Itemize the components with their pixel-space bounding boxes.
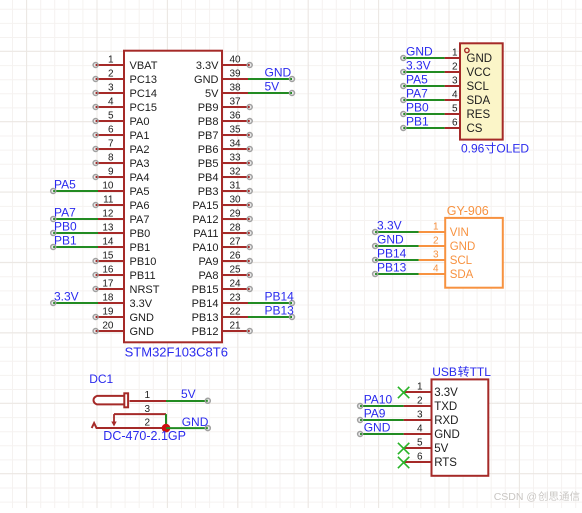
svg-text:19: 19	[102, 307, 114, 318]
U1 pin 33 (PB5) right side	[198, 153, 252, 171]
svg-text:21: 21	[230, 321, 242, 332]
svg-text:SCL: SCL	[467, 81, 490, 93]
wire net PA7 to U1 pin 12	[51, 217, 98, 222]
svg-text:1: 1	[433, 222, 439, 233]
svg-text:NRST: NRST	[130, 284, 160, 296]
U1 pin 5 (PA0) left side	[93, 111, 149, 129]
svg-text:PB9: PB9	[198, 102, 219, 114]
connector J2 GY-906 body	[445, 218, 503, 288]
svg-text:GND: GND	[194, 74, 219, 86]
svg-text:32: 32	[230, 167, 242, 178]
svg-text:27: 27	[230, 237, 242, 248]
wire net PB1 to U1 pin 14	[51, 245, 98, 250]
svg-text:PB14: PB14	[265, 290, 295, 304]
no-connect flag on J3 pin 1	[398, 387, 409, 398]
svg-text:PA1: PA1	[130, 130, 150, 142]
svg-text:PB13: PB13	[377, 261, 407, 275]
svg-text:PA7: PA7	[54, 206, 76, 220]
U1 pin 37 (PB9) right side	[198, 97, 252, 115]
U1 pin 38 (5V) right side	[205, 83, 248, 101]
svg-text:2: 2	[433, 236, 439, 247]
svg-text:SDA: SDA	[450, 269, 474, 281]
svg-text:16: 16	[102, 265, 114, 276]
U1 pin 28 (PA11) right side	[193, 223, 252, 241]
svg-text:PB10: PB10	[130, 256, 157, 268]
U1 pin 22 (PB13) right side	[192, 307, 248, 325]
svg-text:SDA: SDA	[467, 95, 491, 107]
U1 pin 3 (PC14) left side	[93, 83, 157, 101]
svg-text:5: 5	[417, 438, 423, 449]
wire net 5V to U1 pin 38	[248, 91, 295, 96]
svg-text:VBAT: VBAT	[130, 60, 158, 72]
svg-text:28: 28	[230, 223, 242, 234]
svg-text:6: 6	[452, 118, 458, 129]
wire net GND to U1 pin 39	[248, 77, 295, 82]
svg-text:SCL: SCL	[450, 255, 473, 267]
U1 pin 24 (PB15) right side	[192, 279, 253, 297]
svg-text:7: 7	[108, 139, 114, 150]
svg-text:PB4: PB4	[198, 172, 219, 184]
wire net GND to J1 pin 1	[401, 56, 445, 61]
svg-text:PA9: PA9	[364, 407, 386, 421]
J3 pin 1 (3.3V)	[404, 382, 459, 400]
U1 pin 16 (PB11) left side	[93, 265, 155, 283]
U1 pin 40 (3.3V) right side	[196, 55, 252, 73]
junction dot	[162, 424, 171, 433]
svg-text:3.3V: 3.3V	[196, 60, 219, 72]
wire net PB0 to J1 pin 5	[401, 112, 445, 117]
svg-text:PC14: PC14	[130, 88, 158, 100]
svg-text:12: 12	[102, 209, 114, 220]
svg-text:PA10: PA10	[364, 393, 393, 407]
svg-text:PA4: PA4	[130, 172, 150, 184]
wire net 3.3V to J1 pin 2	[401, 70, 445, 75]
svg-text:PA12: PA12	[192, 214, 218, 226]
svg-text:PB13: PB13	[265, 304, 295, 318]
wire pin 3 to pin 2 junction	[165, 414, 167, 428]
svg-text:3.3V: 3.3V	[406, 59, 431, 73]
svg-text:29: 29	[230, 209, 242, 220]
svg-text:PB0: PB0	[130, 228, 151, 240]
svg-text:PB1: PB1	[130, 242, 151, 254]
no-connect flag on J3 pin 6	[398, 457, 409, 468]
svg-text:13: 13	[102, 223, 114, 234]
svg-text:15: 15	[102, 251, 114, 262]
U1 pin 2 (PC13) left side	[93, 69, 157, 87]
connector J3 USB转TTL body	[432, 379, 489, 475]
U1 pin 25 (PA8) right side	[199, 265, 253, 283]
wire net PA7 to J1 pin 4	[401, 98, 445, 103]
U1 pin 12 (PA7) left side	[97, 209, 149, 227]
svg-text:4: 4	[108, 97, 114, 108]
U1 pin 9 (PA4) left side	[93, 167, 149, 185]
U1 pin 30 (PA15) right side	[192, 195, 252, 213]
svg-text:CS: CS	[467, 123, 483, 135]
J1 pin 4 (SDA)	[445, 90, 491, 108]
svg-text:38: 38	[230, 83, 242, 94]
svg-text:DC-470-2.1GP: DC-470-2.1GP	[103, 429, 186, 443]
svg-text:PB0: PB0	[406, 101, 429, 115]
svg-text:34: 34	[230, 139, 242, 150]
svg-text:GND: GND	[265, 66, 292, 80]
svg-text:PA15: PA15	[192, 200, 218, 212]
svg-text:VCC: VCC	[467, 67, 491, 79]
svg-text:RXD: RXD	[434, 415, 458, 427]
svg-text:GND: GND	[434, 429, 460, 441]
svg-text:14: 14	[102, 237, 114, 248]
svg-text:31: 31	[230, 181, 242, 192]
wire net PB13 to J2 pin 4	[373, 272, 419, 277]
J2 pin 4 (SDA)	[419, 264, 474, 282]
svg-text:8: 8	[108, 153, 114, 164]
svg-text:5V: 5V	[181, 387, 196, 401]
svg-text:PA9: PA9	[199, 256, 219, 268]
svg-text:18: 18	[102, 293, 114, 304]
svg-text:11: 11	[103, 195, 114, 206]
svg-text:PB11: PB11	[130, 270, 156, 282]
svg-text:PB1: PB1	[54, 234, 77, 248]
U1 pin 15 (PB10) left side	[93, 251, 156, 269]
svg-text:6: 6	[417, 452, 423, 463]
U1 pin 20 (GND) left side	[93, 321, 154, 339]
U1 pin 18 (3.3V) left side	[97, 293, 153, 311]
svg-text:PC13: PC13	[130, 74, 158, 86]
wire net PB0 to U1 pin 13	[51, 231, 98, 236]
svg-text:3: 3	[144, 404, 150, 415]
svg-text:PA5: PA5	[406, 73, 428, 87]
U1 pin 21 (PB12) right side	[192, 321, 253, 339]
DC1 pin 3 (switch)	[114, 404, 166, 415]
svg-text:PB1: PB1	[406, 115, 429, 129]
svg-text:TTL: TTL	[470, 365, 492, 379]
svg-text:40: 40	[230, 55, 242, 66]
wire net 3.3V to U1 pin 18	[51, 301, 98, 306]
U1 pin 19 (GND) left side	[93, 307, 154, 325]
U1 pin 23 (PB14) right side	[192, 293, 248, 311]
svg-text:PB13: PB13	[192, 312, 219, 324]
svg-text:4: 4	[452, 90, 458, 101]
J3 pin 2 (TXD)	[404, 396, 458, 414]
svg-text:36: 36	[230, 111, 242, 122]
J2 pin 3 (SCL)	[419, 250, 473, 268]
no-connect flag on J3 pin 5	[398, 443, 409, 454]
svg-text:30: 30	[230, 195, 242, 206]
svg-text:GND: GND	[130, 326, 155, 338]
svg-text:6: 6	[108, 125, 114, 136]
svg-text:20: 20	[102, 321, 114, 332]
DC1 pin 1 (tip)	[130, 390, 167, 401]
U1 pin 32 (PB4) right side	[198, 167, 252, 185]
J1 pin 3 (SCL)	[445, 76, 490, 94]
wire net 5V from DC1 pin 1	[166, 398, 210, 403]
J2 pin 1 (VIN)	[419, 222, 469, 240]
svg-text:39: 39	[230, 69, 242, 80]
U1 pin 1 (VBAT) left side	[93, 55, 158, 73]
svg-text:2: 2	[144, 418, 150, 429]
svg-text:0.96: 0.96	[461, 142, 485, 156]
svg-text:4: 4	[417, 424, 423, 435]
U1 pin 31 (PB3) right side	[198, 181, 252, 199]
svg-text:GND: GND	[467, 53, 493, 65]
svg-text:3.3V: 3.3V	[377, 219, 402, 233]
svg-text:PA7: PA7	[130, 214, 150, 226]
svg-text:3.3V: 3.3V	[54, 290, 79, 304]
svg-text:9: 9	[108, 167, 114, 178]
U1 pin 36 (PB8) right side	[198, 111, 252, 129]
svg-text:RES: RES	[467, 109, 491, 121]
U1 pin 11 (PA6) left side	[93, 195, 149, 213]
svg-text:4: 4	[433, 264, 439, 275]
svg-text:3: 3	[452, 76, 458, 87]
U1 pin 39 (GND) right side	[194, 69, 248, 87]
U1 pin 10 (PA5) left side	[97, 181, 149, 199]
svg-text:3: 3	[108, 83, 114, 94]
J3 pin 3 (RXD)	[404, 410, 459, 428]
IC U1 STM32F103C8T6 body	[124, 51, 222, 343]
svg-text:5V: 5V	[265, 80, 280, 94]
U1 pin 8 (PA3) left side	[93, 153, 149, 171]
svg-text:2: 2	[108, 69, 114, 80]
svg-text:1: 1	[144, 390, 150, 401]
wire net PA9 to J3 pin 3	[358, 418, 404, 423]
svg-text:26: 26	[230, 251, 242, 262]
svg-text:PB14: PB14	[377, 247, 407, 261]
svg-text:PB8: PB8	[198, 116, 219, 128]
svg-text:CSDN @: CSDN @	[494, 491, 537, 503]
svg-text:PA8: PA8	[199, 270, 219, 282]
svg-text:PA11: PA11	[193, 228, 218, 240]
svg-text:VIN: VIN	[450, 227, 469, 239]
wire net PB13 to U1 pin 22	[248, 315, 295, 320]
U1 pin 34 (PB6) right side	[198, 139, 252, 157]
svg-text:10: 10	[102, 181, 114, 192]
J3 pin 6 (RTS)	[404, 452, 458, 470]
svg-text:33: 33	[230, 153, 242, 164]
svg-text:USB: USB	[432, 365, 457, 379]
svg-text:37: 37	[230, 97, 242, 108]
DC1 tip contact bar	[124, 393, 128, 407]
svg-text:PB5: PB5	[198, 158, 219, 170]
svg-text:PA10: PA10	[192, 242, 218, 254]
connector J1 0.96寸OLED body	[460, 43, 503, 139]
J3 pin 4 (GND)	[404, 424, 460, 442]
wire net GND to J2 pin 2	[373, 244, 419, 249]
svg-text:GND: GND	[450, 241, 476, 253]
svg-text:PB3: PB3	[198, 186, 219, 198]
J1 pin 1 (GND)	[445, 48, 492, 66]
J1 name label 0.96寸OLED	[461, 142, 529, 156]
J2 pin 2 (GND)	[419, 236, 476, 254]
U1 pin 35 (PB7) right side	[198, 125, 252, 143]
svg-text:23: 23	[230, 293, 242, 304]
J1 pin-1 polarity mark	[465, 48, 469, 52]
svg-text:PA5: PA5	[130, 186, 150, 198]
svg-text:PA6: PA6	[130, 200, 150, 212]
svg-text:3: 3	[433, 250, 439, 261]
J1 pin 5 (RES)	[445, 104, 491, 122]
svg-text:GND: GND	[182, 415, 209, 429]
wire net PB14 to U1 pin 23	[248, 301, 295, 306]
svg-text:PB14: PB14	[192, 298, 219, 310]
svg-text:25: 25	[230, 265, 242, 276]
svg-text:1: 1	[108, 55, 114, 66]
svg-text:GND: GND	[130, 312, 155, 324]
svg-text:PA7: PA7	[406, 87, 428, 101]
svg-text:1: 1	[452, 48, 458, 59]
svg-text:GY-906: GY-906	[447, 204, 489, 218]
J1 pin 6 (CS)	[445, 118, 483, 136]
svg-text:PC15: PC15	[130, 102, 158, 114]
svg-text:5V: 5V	[205, 88, 219, 100]
wire net 3.3V to J2 pin 1	[373, 230, 419, 235]
svg-text:22: 22	[230, 307, 242, 318]
wire net PB14 to J2 pin 3	[373, 258, 419, 263]
svg-text:5V: 5V	[434, 443, 448, 455]
U1 pin 17 (NRST) left side	[93, 279, 160, 297]
svg-text:RTS: RTS	[434, 457, 457, 469]
svg-text:PB15: PB15	[192, 284, 219, 296]
wire net GND from junction	[166, 426, 210, 431]
U1 pin 29 (PA12) right side	[192, 209, 252, 227]
U1 pin 13 (PB0) left side	[97, 223, 150, 241]
svg-text:STM32F103C8T6: STM32F103C8T6	[125, 345, 228, 360]
svg-text:PA2: PA2	[130, 144, 150, 156]
svg-text:PA0: PA0	[130, 116, 150, 128]
U1 pin 26 (PA9) right side	[199, 251, 253, 269]
svg-text:GND: GND	[364, 421, 391, 435]
wire net PA5 to U1 pin 10	[51, 189, 98, 194]
J3 name label USB转TTL	[432, 365, 491, 379]
svg-text:PB6: PB6	[198, 144, 219, 156]
U1 pin 14 (PB1) left side	[97, 237, 150, 255]
svg-text:PB0: PB0	[54, 220, 77, 234]
svg-text:5: 5	[108, 111, 114, 122]
U1 pin 4 (PC15) left side	[93, 97, 157, 115]
J1 pin 2 (VCC)	[445, 62, 491, 80]
svg-text:2: 2	[417, 396, 423, 407]
connector DC1 barrel body	[94, 396, 124, 405]
U1 pin 7 (PA2) left side	[93, 139, 149, 157]
svg-text:3.3V: 3.3V	[130, 298, 153, 310]
wire net GND to J3 pin 4	[358, 432, 404, 437]
svg-text:3: 3	[417, 410, 423, 421]
svg-text:OLED: OLED	[496, 142, 529, 156]
U1 pin 6 (PA1) left side	[93, 125, 149, 143]
svg-text:DC1: DC1	[89, 372, 113, 386]
DC1 pin 2 (sleeve) with spring tail	[92, 418, 166, 429]
U1 pin 27 (PA10) right side	[192, 237, 252, 255]
J3 pin 5 (5V)	[404, 438, 449, 456]
wire net PA10 to J3 pin 2	[358, 404, 404, 409]
DC1 switch arrow	[111, 414, 116, 426]
svg-text:17: 17	[102, 279, 114, 290]
svg-text:5: 5	[452, 104, 458, 115]
svg-text:PA5: PA5	[54, 178, 76, 192]
svg-text:PB12: PB12	[192, 326, 219, 338]
svg-text:2: 2	[452, 62, 458, 73]
svg-text:3.3V: 3.3V	[434, 387, 458, 399]
svg-text:24: 24	[230, 279, 242, 290]
watermark CSDN @创思通信	[494, 491, 580, 503]
svg-text:GND: GND	[406, 45, 433, 59]
svg-text:1: 1	[417, 382, 423, 393]
svg-text:35: 35	[230, 125, 242, 136]
svg-text:GND: GND	[377, 233, 404, 247]
wire net PB1 to J1 pin 6	[401, 126, 445, 131]
svg-text:PB7: PB7	[198, 130, 219, 142]
wire net PA5 to J1 pin 3	[401, 84, 445, 89]
svg-text:TXD: TXD	[434, 401, 457, 413]
svg-text:PA3: PA3	[130, 158, 150, 170]
